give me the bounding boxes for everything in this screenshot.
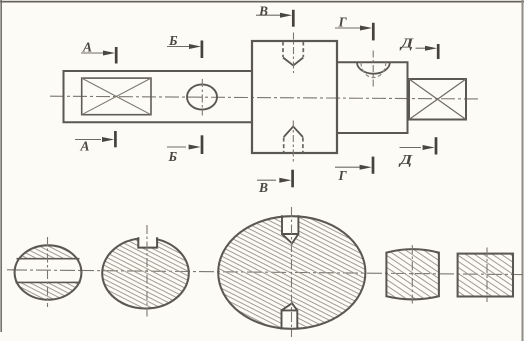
groove solid arc on medium segment (357, 62, 390, 73)
svg-text:Г: Г (338, 168, 348, 183)
section mark B(Б) top: arrow (167, 46, 193, 48)
section mark G(Г) top: arrow (335, 27, 362, 29)
section mark G(Г) bottom: tick (372, 157, 375, 174)
common horizontal centerline of sections (7, 270, 523, 275)
section D-D vertical centerline (486, 248, 488, 303)
section V-V body hatched (218, 216, 365, 329)
svg-text:В: В (258, 180, 268, 195)
section mark D(Д) top: tick (437, 44, 440, 59)
right end segment with X (409, 79, 466, 120)
section D-D outline (458, 254, 513, 297)
section mark V(В) top: arrow (256, 14, 283, 16)
section mark A top: arrow (81, 52, 107, 54)
section mark A top: tick (115, 47, 118, 64)
flat (X) rectangle on left segment (82, 78, 151, 115)
section B-B circle outline (102, 238, 189, 308)
photo right border (522, 0, 524, 341)
section V-V top hole white (282, 215, 298, 244)
block bottom hole cone (284, 127, 303, 138)
section mark V(В) bottom: arrow (257, 179, 276, 181)
section mark A bottom: tick (114, 131, 117, 147)
section A-A lower chord (16, 281, 81, 283)
section mark V(В) top: tick (292, 10, 295, 27)
shaft left segment outline (64, 71, 253, 122)
section mark D(Д) bottom: tick (435, 137, 438, 154)
section V-V vertical centerline (291, 207, 293, 337)
hole vertical centerline (201, 79, 203, 116)
section B-B keyway outline (138, 237, 157, 247)
svg-text:В: В (258, 3, 268, 18)
section mark B(Б) bottom: arrow (167, 146, 186, 148)
svg-text:Г: Г (338, 14, 348, 29)
section V-V bottom hole outline (282, 303, 298, 329)
hole circle on left segment (187, 84, 217, 109)
section B-B keyway white (138, 232, 157, 247)
groove vertical centerline (372, 51, 374, 87)
right end X diagonal 2 (409, 79, 466, 120)
svg-text:А: А (80, 139, 90, 154)
block top hole right wall (hidden) (302, 42, 304, 58)
section G-G vertical centerline (411, 245, 413, 304)
section mark G(Г) bottom: arrow (335, 166, 360, 168)
main horizontal centerline (50, 96, 480, 99)
section mark G(Г) top: tick (372, 23, 375, 41)
section A-A ellipse (15, 245, 82, 299)
section G-G body hatched (386, 249, 439, 299)
svg-text:Д: Д (398, 153, 414, 168)
photo top border (0, 1, 524, 3)
photo left border (0, 0, 2, 332)
block bottom hole right wall (hidden) (302, 138, 304, 153)
section B-B body hatched (102, 238, 189, 308)
section mark D(Д) top: arrow (416, 47, 428, 49)
block bottom hole left wall (hidden) (283, 138, 285, 153)
svg-text:А: А (82, 40, 92, 55)
section A-A upper chord (17, 258, 80, 260)
block top hole left wall (hidden) (282, 42, 284, 58)
svg-text:Б: Б (168, 149, 178, 164)
block top hole cone (283, 58, 303, 66)
section G-G outline (386, 249, 439, 299)
section V-V top hole outline (282, 215, 298, 243)
section mark B(Б) top: tick (201, 41, 204, 59)
section mark D(Д) bottom: arrow (400, 147, 422, 149)
section B-B vertical centerline (146, 225, 148, 318)
central block (252, 41, 337, 153)
section D-D body hatched (458, 254, 513, 297)
section A-A horizontal centerline segment (12, 269, 84, 272)
section mark B(Б) bottom: tick (201, 135, 204, 154)
section A-A: hatched body (15, 245, 82, 299)
medium segment outline (337, 62, 408, 133)
section mark A bottom: arrow (75, 139, 101, 141)
groove hidden arc (361, 62, 386, 77)
white margin right of photo edge (524, 0, 531, 341)
flat X diagonal 1 (82, 78, 151, 115)
block bottom hole centerline (292, 121, 294, 164)
svg-text:Б: Б (168, 33, 178, 48)
block top hole centerline (293, 33, 295, 74)
section A-A vertical centerline (47, 237, 49, 307)
section V-V bottom hole white (282, 303, 298, 330)
section B-B keyway erase arc across opening (139, 234, 156, 247)
section V-V circle outline (218, 216, 365, 329)
section mark V(В) bottom: tick (291, 170, 294, 188)
svg-text:Д: Д (399, 36, 415, 51)
right end X diagonal 1 (409, 79, 466, 120)
flat X diagonal 2 (82, 78, 151, 115)
